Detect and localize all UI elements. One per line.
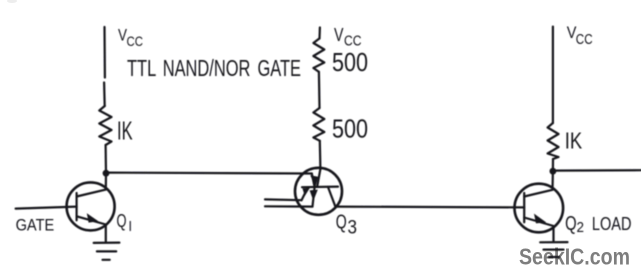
label Q1 [117, 211, 132, 234]
resistor 500 (lower) [313, 108, 324, 141]
label LOAD [592, 213, 632, 234]
wire between 500 resistors [318, 72, 321, 108]
svg-text:500: 500 [332, 47, 368, 77]
wire: node A to Q3 upper emitter [106, 172, 312, 175]
svg-text:V: V [334, 25, 344, 45]
svg-text:3: 3 [348, 218, 358, 239]
resistor 1K (right) [548, 123, 559, 159]
wire: GATE input to Q1 base [16, 207, 77, 209]
svg-text:LOAD: LOAD [592, 213, 632, 234]
wire: mid Vcc rail [318, 28, 321, 39]
scan smudge top-left [7, 0, 17, 3]
value label 1K (left) [117, 116, 133, 146]
svg-text:IK: IK [117, 116, 133, 146]
node B junction dot [550, 168, 557, 175]
svg-text:Q: Q [336, 211, 347, 233]
value label 500 (lower) [332, 114, 368, 144]
svg-text:CC: CC [576, 32, 593, 48]
transistor Q3 multi-emitter [265, 168, 342, 215]
value label 500 (upper) [332, 47, 368, 77]
svg-text:Q: Q [117, 211, 127, 231]
svg-text:l: l [129, 218, 132, 234]
watermark SeekIC.com [519, 244, 630, 270]
node A junction dot [103, 170, 110, 177]
wire: right Vcc rail [552, 27, 554, 123]
label Q2 [565, 213, 584, 236]
svg-text:500: 500 [332, 114, 368, 144]
caption TTL NAND/NOR GATE [127, 55, 301, 81]
wire: resistor to node A [104, 145, 107, 173]
value label 1K (right) [565, 127, 583, 153]
transistor Q2 [515, 171, 564, 241]
svg-text:TTL NAND/NOR GATE: TTL NAND/NOR GATE [127, 55, 301, 81]
svg-text:IK: IK [565, 127, 583, 153]
transistor Q1 [67, 173, 115, 241]
power label Vcc (mid) [334, 25, 362, 50]
svg-text:SeekIC.com: SeekIC.com [519, 244, 630, 270]
wire: resistor to node B [552, 159, 554, 171]
svg-text:Q: Q [565, 213, 577, 235]
wire: resistor to Q3 base bar [317, 141, 320, 187]
ground under Q1 [94, 243, 120, 260]
resistor 500 (upper) [313, 38, 324, 72]
svg-text:CC: CC [127, 33, 144, 49]
label GATE [16, 215, 55, 234]
wire: node B to right edge [553, 169, 641, 172]
resistor 1K (left) [99, 106, 111, 145]
wire: Q3 collector to Q2 base [335, 206, 524, 209]
power label Vcc (left) [118, 27, 143, 50]
svg-text:2: 2 [577, 219, 585, 236]
label Q3 [336, 211, 357, 238]
ground under Q2 [540, 242, 567, 257]
wire: left Vcc rail [103, 27, 106, 106]
svg-text:GATE: GATE [16, 215, 55, 234]
power label Vcc (right) [567, 24, 593, 48]
